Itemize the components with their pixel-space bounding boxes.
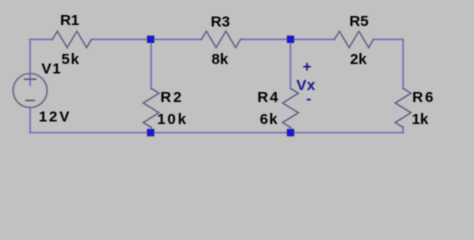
resistor R4 zigzag	[283, 88, 299, 127]
svg-text:6k: 6k	[260, 111, 279, 128]
wire R2 bottom lead	[150, 127, 152, 132]
wire R4 top lead	[290, 39, 292, 88]
svg-text:5k: 5k	[61, 51, 80, 68]
svg-text:R5: R5	[349, 13, 368, 30]
V1 minus bar	[26, 100, 34, 102]
wire V1 top lead	[29, 39, 31, 85]
wire V1 bottom lead	[29, 107, 31, 132]
wire top rail R1 to R2 node	[92, 38, 202, 40]
svg-text:8k: 8k	[212, 51, 229, 68]
svg-text:V1: V1	[41, 61, 61, 78]
wire top rail R3 to R4 node	[241, 38, 335, 40]
junction dot top R4 node	[287, 36, 293, 42]
wire bottom rail	[30, 132, 403, 134]
svg-text:1k: 1k	[412, 111, 429, 128]
junction dot top R2 node	[147, 36, 153, 42]
wire R2 top lead	[150, 39, 152, 88]
voltage source V1 circle	[13, 74, 47, 108]
resistor R5 zigzag	[335, 31, 374, 47]
wire top rail left segment	[30, 38, 52, 40]
resistor R6 zigzag	[395, 88, 411, 127]
svg-text:R4: R4	[257, 89, 279, 106]
svg-text:R1: R1	[60, 12, 79, 29]
svg-text:R2: R2	[160, 89, 183, 106]
svg-text:R6: R6	[412, 89, 435, 106]
wire R4 bottom lead	[290, 127, 292, 132]
wire R6 top lead	[402, 39, 404, 88]
resistor R2 zigzag	[143, 88, 159, 127]
wire top rail R5 to right corner	[374, 38, 404, 40]
resistor R3 zigzag	[202, 31, 241, 47]
svg-text:R3: R3	[211, 13, 230, 30]
svg-text:+: +	[303, 59, 312, 76]
junction dot bottom R4 node	[287, 129, 293, 135]
resistor R1 zigzag	[53, 31, 92, 47]
V1 plus bar	[25, 78, 36, 80]
junction dot bottom R2 node	[147, 129, 153, 135]
svg-text:10k: 10k	[157, 111, 188, 128]
svg-text:12V: 12V	[39, 109, 72, 126]
wire R6 bottom lead	[402, 127, 404, 132]
svg-text:-: -	[306, 90, 311, 107]
svg-text:2k: 2k	[350, 51, 367, 68]
